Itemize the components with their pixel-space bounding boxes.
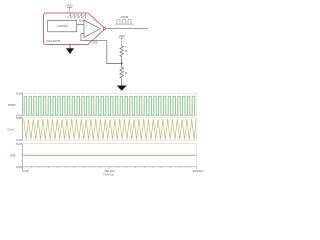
time axis (23, 167, 197, 172)
op-amp U1 (84, 20, 100, 37)
PWM pulse symbol (115, 20, 134, 25)
VDD symbol block supply (66, 3, 72, 13)
svg-text:0.00: 0.00 (23, 169, 29, 173)
LADDER box U2 (48, 20, 77, 31)
wire feedback to inverting input (81, 34, 122, 64)
scope panel VDAC frame (23, 118, 197, 140)
time axis minor ticks (31, 167, 188, 169)
scope panel VFB frame (23, 144, 197, 169)
svg-text:5.00: 5.00 (16, 116, 22, 120)
op-amp output node (103, 28, 105, 30)
wire DAC to op-amp (77, 24, 84, 26)
DAC block outline (44, 13, 106, 45)
PWM trace (24, 96, 197, 115)
VFB trace (23, 154, 196, 156)
ground divider (117, 86, 127, 91)
svg-text:-: - (86, 32, 87, 36)
svg-text:0.00: 0.00 (16, 165, 22, 169)
VFB panel y ticks (21, 144, 22, 167)
resistor R1 (120, 45, 127, 58)
ground block (66, 45, 74, 55)
svg-text:DAC&STM: DAC&STM (47, 39, 61, 43)
svg-text:LADDER: LADDER (57, 24, 68, 28)
svg-text:VFB: VFB (92, 40, 98, 44)
sawtooth waveform symbol (67, 14, 86, 18)
svg-text:VDD: VDD (119, 34, 125, 38)
wire R2 to ground (121, 79, 123, 86)
svg-text:VDD: VDD (66, 3, 72, 7)
PWM panel y ticks (21, 93, 22, 115)
svg-text:5.00: 5.00 (16, 142, 22, 146)
time axis labels (23, 169, 204, 173)
VDD symbol divider supply (119, 34, 125, 45)
PWM axis values (16, 92, 22, 118)
svg-text:VFB: VFB (10, 153, 16, 157)
resistor R2 (120, 67, 127, 79)
VFB axis values (16, 142, 22, 169)
svg-text:PWM: PWM (121, 15, 129, 19)
scope panel PWM frame (23, 93, 197, 115)
wire R1 to junction (121, 58, 123, 67)
VDAC panel y ticks (21, 118, 22, 140)
VDAC trace (24, 119, 196, 139)
svg-text:R: R (125, 71, 127, 75)
node VFB junction (121, 63, 123, 65)
svg-text:PWM: PWM (8, 103, 16, 107)
svg-text:200.00u: 200.00u (193, 169, 204, 173)
svg-text:VDAC: VDAC (7, 127, 16, 131)
svg-text:Time (s): Time (s) (103, 172, 114, 176)
svg-text:+: + (86, 23, 88, 27)
svg-text:5.00: 5.00 (16, 92, 22, 96)
wire PWM output (106, 28, 149, 30)
VDAC axis values (16, 116, 22, 142)
svg-text:R: R (125, 49, 127, 53)
